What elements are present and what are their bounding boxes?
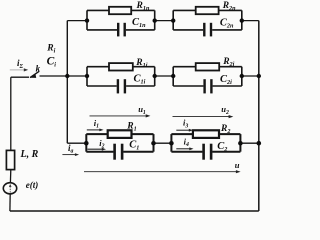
svg-text:k: k: [36, 63, 41, 73]
svg-text:L, R: L, R: [20, 149, 39, 160]
svg-text:u: u: [235, 160, 240, 170]
svg-text:e(t): e(t): [26, 180, 39, 190]
